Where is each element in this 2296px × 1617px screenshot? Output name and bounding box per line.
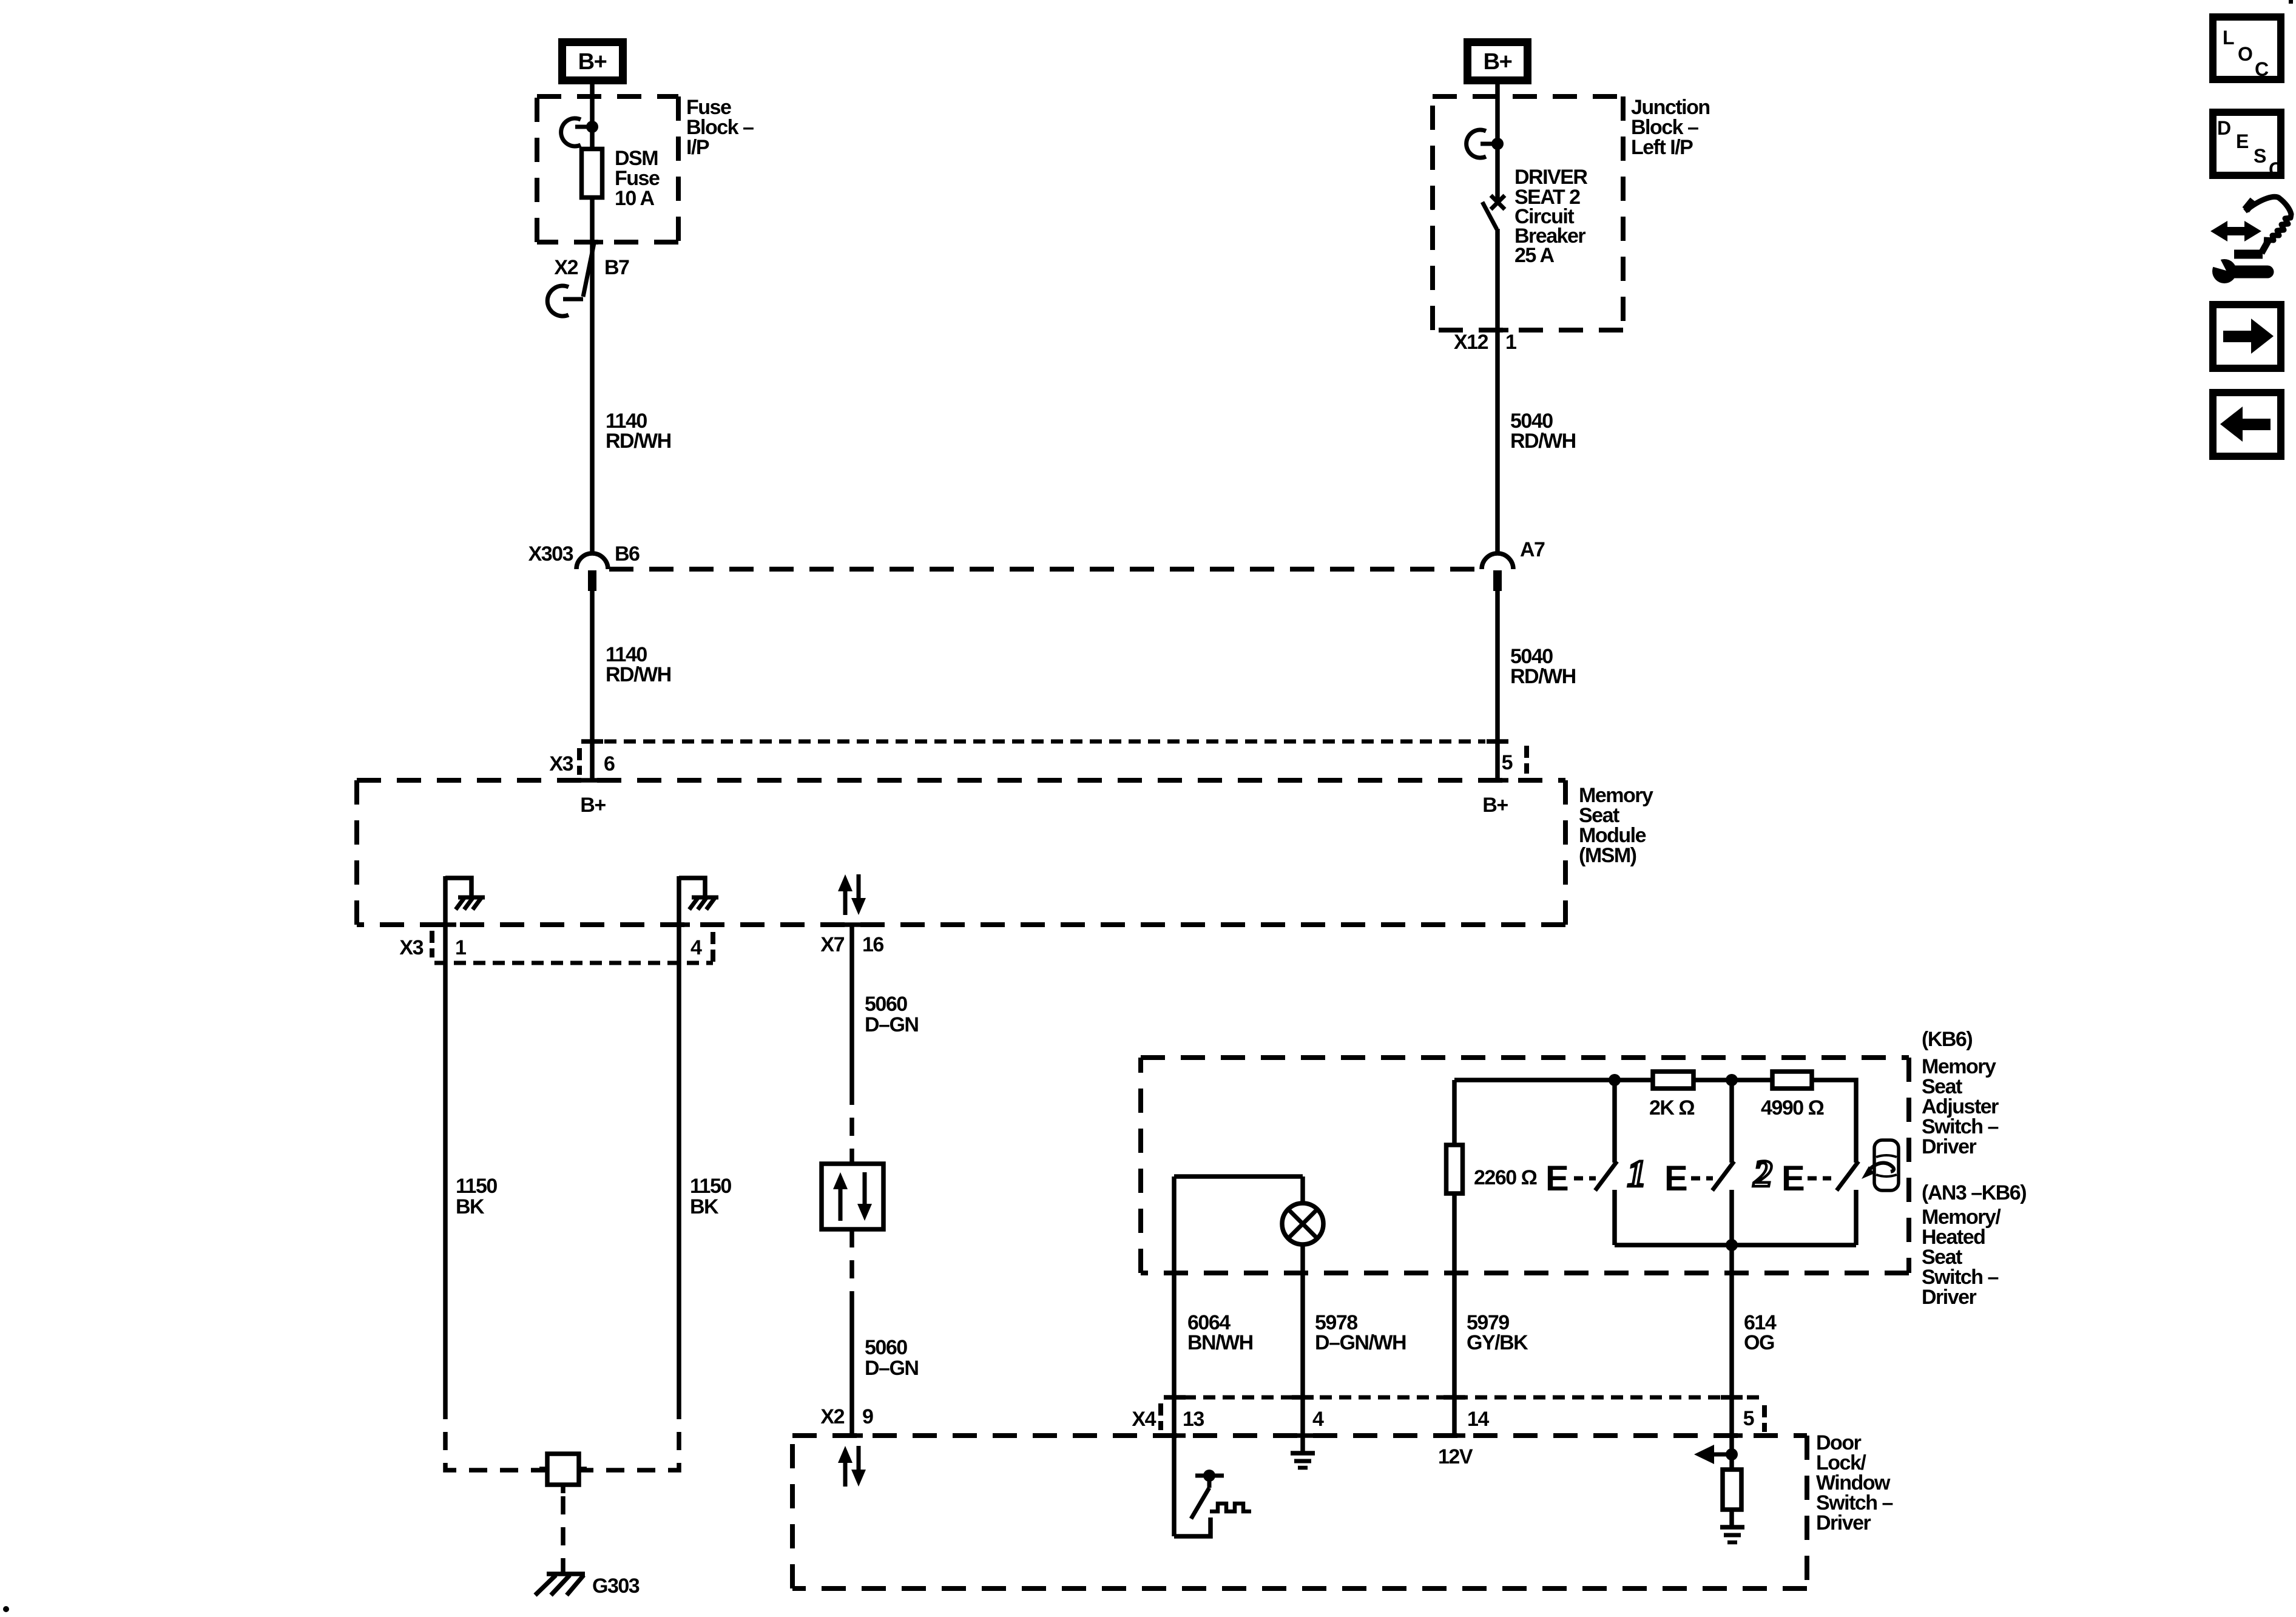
svg-text:X2: X2: [820, 1405, 844, 1428]
tick pin 5: [1487, 739, 1508, 744]
fuse DSM 10 A: [582, 149, 603, 198]
dashed wire to ground G303: [561, 1496, 566, 1573]
svg-text:5: 5: [1743, 1407, 1754, 1430]
label: circuit 5978 D-GN/WH: [1315, 1311, 1406, 1354]
dashed wire below data link box: [849, 1229, 854, 1306]
label: Fuse Block - I/P: [686, 96, 754, 159]
svg-text:(MSM): (MSM): [1579, 844, 1636, 867]
svg-text:D: D: [2217, 117, 2230, 139]
connector X4 right boundary tick: [1762, 1405, 1767, 1432]
label: circuit 614 OG: [1744, 1311, 1777, 1354]
label: Memory Seat Module (MSM): [1579, 784, 1653, 867]
page corner mark top right: [2289, 0, 2293, 4]
svg-text:1150: 1150: [456, 1175, 497, 1198]
svg-text:B+: B+: [578, 49, 607, 75]
resistor 2260 ohm: [1447, 1080, 1537, 1436]
wire: X303 to MSM pin 6: [590, 591, 595, 780]
door lock/window switch dashed box: [792, 1436, 1807, 1588]
memory set switch 3: [1781, 1159, 1859, 1245]
junction dot node 2: [1726, 1074, 1738, 1086]
in-line connector A7: [1482, 538, 1545, 591]
bus between resistors: [1693, 1078, 1772, 1082]
tick pin 6: [581, 739, 603, 744]
MSM internal ground pin X3-1: [445, 876, 485, 925]
svg-text:X2: X2: [554, 256, 578, 279]
nav icon adjustable-component hand symbol: [2210, 197, 2291, 254]
wire: lamp feed horizontal: [1174, 1174, 1303, 1179]
connector X3 lower row fine dashed line: [434, 961, 713, 965]
svg-text:D–GN/WH: D–GN/WH: [1315, 1331, 1406, 1354]
tick door top pin 13: [1164, 1433, 1186, 1438]
indicator lamp: [1282, 1176, 1323, 1451]
resistor 4990 ohm: [1761, 1072, 1824, 1119]
memory switch 1: [1545, 1080, 1617, 1245]
power symbol B+ (right feed): [1468, 42, 1528, 81]
earth ground at pin 4: [1291, 1453, 1315, 1468]
connector label X2 | B7: [554, 256, 629, 279]
label: circuit 5040 RD/WH (upper): [1510, 410, 1576, 453]
svg-text:I/P: I/P: [686, 136, 709, 159]
svg-text:13: 13: [1183, 1408, 1204, 1431]
nav icon wrench symbol: [2201, 249, 2267, 283]
svg-text:X3: X3: [549, 752, 573, 775]
label: 5060 D-GN upper: [865, 993, 918, 1036]
svg-text:RD/WH: RD/WH: [606, 430, 671, 453]
label: 5060 D-GN lower: [865, 1336, 918, 1380]
junction dot node 1: [1609, 1074, 1621, 1086]
tick door top pin 5: [1721, 1433, 1743, 1438]
svg-text:1150: 1150: [690, 1175, 731, 1198]
label: 1150 BK left: [456, 1175, 497, 1218]
svg-text:G303: G303: [592, 1575, 640, 1598]
wire: 5060 D-GN upper solid: [849, 925, 854, 1087]
svg-text:1: 1: [1505, 331, 1516, 354]
tick MSM bottom pin 16: [841, 922, 863, 927]
svg-text:B+: B+: [1484, 49, 1512, 75]
svg-text:E: E: [1664, 1159, 1688, 1198]
pull-down resistor at pin 5: [1723, 1470, 1741, 1510]
wire: circuit 1150 BK (pin 1 to splice): [443, 925, 448, 1401]
nav icon LOC button: [2213, 17, 2281, 80]
label: circuit 1140 RD/WH (upper): [606, 410, 671, 453]
earth ground below resistor: [1720, 1510, 1744, 1542]
circuit breaker DRIVER SEAT 2 25 A: [1482, 195, 1505, 229]
dashed wire into splice (right): [579, 1401, 679, 1470]
tick X4 pin 14: [1443, 1395, 1465, 1400]
label: circuit 5979 GY/BK: [1467, 1311, 1528, 1354]
svg-text:12V: 12V: [1438, 1445, 1473, 1468]
tick door top pin 4: [1292, 1433, 1314, 1438]
wire: 614 OG branch down: [1729, 1245, 1734, 1470]
memory seat adjuster switch dashed box: [1141, 1058, 1909, 1273]
top bus wire: [1454, 1078, 1653, 1082]
fuse block I/P dashed box: [537, 96, 678, 242]
signal arrow at pin 5: [1694, 1445, 1738, 1464]
tick MSM top pin 6: [581, 778, 603, 783]
svg-text:C: C: [2255, 58, 2269, 80]
svg-text:RD/WH: RD/WH: [606, 663, 671, 686]
svg-text:BK: BK: [456, 1195, 485, 1218]
serial data arrows inside door switch: [838, 1446, 866, 1487]
svg-text:10 A: 10 A: [615, 187, 655, 210]
resistor 2K ohm: [1649, 1072, 1694, 1119]
connector label X12 | 1: [1454, 331, 1516, 354]
data link connector box with arrows: [822, 1164, 883, 1229]
connector X3 right boundary tick: [1524, 746, 1529, 774]
svg-text:5: 5: [1502, 751, 1513, 774]
svg-text:E: E: [2236, 130, 2249, 152]
label X3 / 6: [549, 752, 615, 775]
bottom bus wire: [1615, 1243, 1856, 1247]
svg-text:5060: 5060: [865, 1336, 907, 1359]
connector X4 left boundary tick: [1158, 1403, 1163, 1430]
svg-text:RD/WH: RD/WH: [1510, 430, 1576, 453]
splice S303 square: [539, 1454, 587, 1493]
label: circuit 5040 RD/WH (lower): [1510, 645, 1576, 688]
svg-text:1: 1: [455, 936, 466, 959]
tick at fuse block exit: [581, 240, 603, 245]
wire: 5060 D-GN lower solid: [849, 1306, 854, 1436]
svg-text:9: 9: [862, 1405, 873, 1428]
connector X3 row (pins 6 / 5) fine dashed line: [604, 740, 1485, 744]
label: Door Lock/Window Switch - Driver: [1816, 1431, 1893, 1534]
svg-text:14: 14: [1467, 1408, 1489, 1431]
svg-text:X12: X12: [1454, 331, 1488, 354]
label: circuit 1140 RD/WH (lower): [606, 643, 671, 686]
wire: fuse to connector X303: [590, 200, 595, 553]
junction dot bottom bus: [1726, 1239, 1738, 1251]
tick MSM bottom pin 1: [434, 922, 456, 927]
connector X4 row fine dashed line: [1164, 1396, 1764, 1400]
memory switch 2: [1664, 1080, 1734, 1245]
power symbol B+ (left feed): [562, 42, 623, 81]
wire: 6064 branch down: [1172, 1176, 1177, 1536]
svg-text:4: 4: [1312, 1408, 1324, 1431]
svg-text:RD/WH: RD/WH: [1510, 665, 1576, 688]
terminal clip inside fuse block: [561, 118, 598, 146]
nav icon DESC button: [2213, 112, 2283, 180]
svg-text:25 A: 25 A: [1514, 244, 1555, 267]
dashed wire into splice (left): [445, 1401, 547, 1470]
label: DSM Fuse 10 A: [615, 147, 660, 210]
tick X4 pin 13: [1164, 1395, 1186, 1400]
ground G303: [535, 1574, 640, 1598]
page corner dot: [3, 1606, 9, 1612]
svg-text:Left I/P: Left I/P: [1631, 136, 1693, 159]
svg-text:X3: X3: [399, 936, 423, 959]
connector X3 lower boundary tick right: [711, 932, 715, 967]
label: (KB6) Memory Seat Adjuster Switch - Driver: [1922, 1028, 1999, 1158]
in-line connector X303 B6: [528, 542, 640, 591]
svg-text:S: S: [2254, 145, 2266, 167]
bus to switch 3: [1812, 1080, 1856, 1163]
tick door box top pin 9: [841, 1433, 863, 1438]
svg-text:BN/WH: BN/WH: [1187, 1331, 1253, 1354]
svg-text:B+: B+: [580, 794, 606, 817]
dashed wire into data link box: [849, 1087, 854, 1164]
wire: circuit 1150 BK (pin 4 to splice): [677, 925, 681, 1401]
svg-text:1: 1: [1627, 1153, 1646, 1195]
dashed harness line B6 to A7: [609, 567, 1481, 572]
svg-text:5060: 5060: [865, 993, 907, 1016]
wire: A7 to MSM pin 5: [1495, 591, 1500, 780]
wire: breaker to connector A7: [1495, 229, 1500, 553]
svg-text:Driver: Driver: [1922, 1135, 1977, 1158]
svg-text:D–GN: D–GN: [865, 1357, 918, 1380]
svg-text:(KB6): (KB6): [1922, 1028, 1972, 1051]
tick X4 pin 4: [1292, 1395, 1314, 1400]
tick MSM bottom pin 4: [668, 922, 690, 927]
svg-text:OG: OG: [1744, 1331, 1774, 1354]
svg-text:X4: X4: [1132, 1408, 1156, 1431]
svg-text:B+: B+: [1482, 794, 1508, 817]
label: circuit 6064 BN/WH: [1187, 1311, 1253, 1354]
label: (AN3 -KB6) Memory/Heated Seat Switch - Driver: [1922, 1181, 2026, 1309]
wire: B+ to fuse: [590, 84, 595, 147]
svg-text:2K Ω: 2K Ω: [1649, 1096, 1694, 1119]
connector X3 lower row labels: [399, 936, 702, 959]
svg-text:E: E: [1781, 1159, 1805, 1198]
svg-text:(AN3 –KB6): (AN3 –KB6): [1922, 1181, 2026, 1204]
svg-text:4: 4: [690, 936, 702, 959]
svg-text:4990 Ω: 4990 Ω: [1761, 1096, 1824, 1119]
connector X7 labels: [820, 933, 883, 956]
label: 1150 BK right: [690, 1175, 731, 1218]
terminal clip inside junction block: [1467, 130, 1504, 158]
tick at junction block exit: [1487, 328, 1508, 333]
MSM internal ground pin X3-4: [679, 876, 718, 925]
nav icon next-page button: [2213, 305, 2281, 368]
connector X3 lower boundary tick left: [430, 931, 434, 957]
svg-text:D–GN: D–GN: [865, 1013, 918, 1036]
tick door top pin 14: [1443, 1433, 1465, 1438]
connector X3 left boundary tick: [577, 748, 582, 775]
wire: B+ to circuit breaker: [1495, 84, 1500, 200]
tick X4 pin 5: [1721, 1395, 1743, 1400]
module: Memory Seat Module (MSM) dashed box: [357, 780, 1565, 925]
svg-text:BK: BK: [690, 1195, 719, 1218]
label: DRIVER SEAT 2 Circuit Breaker 25 A: [1514, 166, 1587, 267]
svg-text:6: 6: [604, 752, 615, 775]
tick MSM top pin 5: [1487, 778, 1508, 783]
svg-text:2260 Ω: 2260 Ω: [1474, 1166, 1537, 1189]
svg-text:2: 2: [1753, 1153, 1772, 1195]
terminal lead with clip below X2 B7: [547, 243, 594, 316]
svg-text:X7: X7: [820, 933, 844, 956]
connector X2 pin 9 labels: [820, 1405, 873, 1428]
svg-text:L: L: [2223, 27, 2234, 49]
svg-text:Driver: Driver: [1816, 1511, 1871, 1534]
svg-text:B7: B7: [604, 256, 629, 279]
label: Junction Block - Left I/P: [1631, 96, 1710, 159]
svg-text:X303: X303: [528, 542, 573, 565]
svg-text:C: C: [2269, 158, 2283, 180]
memory recall momentary switch (pin 13): [1174, 1470, 1251, 1536]
junction block left I/P dashed box: [1433, 96, 1623, 330]
connector X4 labels: [1132, 1407, 1754, 1431]
svg-text:O: O: [2238, 43, 2252, 65]
svg-text:GY/BK: GY/BK: [1467, 1331, 1528, 1354]
svg-text:16: 16: [862, 933, 883, 956]
nav icon previous-page button: [2213, 393, 2281, 456]
svg-text:E: E: [1545, 1159, 1569, 1198]
svg-text:B6: B6: [615, 542, 640, 565]
svg-text:Driver: Driver: [1922, 1286, 1977, 1309]
seat icon (car with swoosh): [1862, 1140, 1899, 1190]
svg-text:A7: A7: [1520, 538, 1545, 561]
MSM serial data arrows at pin X7-16: [838, 874, 866, 915]
